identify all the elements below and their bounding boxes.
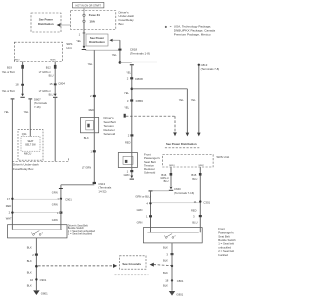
svg-text:(Terminals 1-8): (Terminals 1-8) — [130, 51, 150, 55]
faint C301 row — [151, 202, 201, 204]
svg-text:MWO: MWO — [169, 165, 175, 167]
svg-text:C901: C901 — [65, 197, 72, 201]
svg-text:BLK: BLK — [163, 259, 168, 263]
wire C lower LT GRN or BLU label — [39, 90, 54, 96]
dashed branch to SRS (horizontal) — [126, 115, 175, 117]
wire A terminal 2 node — [9, 210, 14, 214]
wire D (driver solenoid feed) — [88, 50, 95, 117]
svg-text:7-16): 7-16) — [34, 105, 41, 109]
connector C804 row: pin 18 on wire A — [15, 82, 24, 86]
svg-text:GRN: GRN — [137, 221, 143, 225]
svg-text:BLK: BLK — [163, 271, 168, 275]
SRS unit dashed box (upper left) — [14, 42, 72, 62]
svg-text:B12: B12 — [46, 65, 51, 69]
svg-text:GRN: GRN — [52, 202, 58, 206]
svg-text:YEL: YEL — [124, 91, 129, 95]
driver's under-dash fuse/relay box label (lower) — [13, 163, 39, 171]
ground G801 (driver) — [33, 290, 48, 295]
dashed branch start tick — [124, 114, 126, 118]
connector C901 ground pin 16 — [30, 278, 47, 282]
MICU inner seat belt sw box — [21, 137, 40, 152]
svg-text:YEL or BLU: YEL or BLU — [2, 71, 15, 74]
svg-text:Premium Package, Mexico: Premium Package, Mexico — [174, 33, 211, 37]
faint artifact line — [132, 61, 157, 63]
svg-text:Box: Box — [119, 22, 125, 26]
wire D terminal 2 — [90, 94, 96, 98]
svg-text:3: 3 — [193, 215, 195, 219]
svg-text:C301: C301 — [203, 201, 210, 205]
dashed line from see grounds to passenger side — [150, 263, 172, 267]
svg-text:G801: G801 — [41, 292, 48, 296]
svg-text:B15: B15 — [191, 173, 196, 177]
ground G801 (passenger) — [169, 291, 184, 296]
svg-text:GRN: GRN — [52, 190, 58, 194]
arrow + line from wire E into see power box 2 — [109, 39, 120, 42]
connector C801 pin 18 node — [165, 279, 184, 283]
see power distribution reference box 2 (center) — [86, 34, 108, 46]
svg-text:D808: D808 — [135, 77, 143, 81]
svg-text:BLU: BLU — [164, 180, 169, 183]
C807 label — [34, 97, 47, 109]
wire C continues into under-dash box — [54, 98, 56, 162]
svg-text:15: 15 — [49, 82, 53, 86]
terminal B15 — [191, 167, 201, 228]
driver's solenoid label — [104, 116, 116, 136]
terminal 3 on B15 — [193, 215, 202, 219]
svg-text:10A: 10A — [89, 19, 95, 23]
terminal 3 below passenger buckle — [166, 253, 173, 257]
svg-text:YEL: YEL — [4, 110, 9, 114]
svg-text:BLU: BLU — [49, 75, 54, 78]
B16 wire color label — [160, 177, 169, 183]
C807 lower ticks — [11, 98, 15, 99]
see grounds reference box — [115, 256, 149, 275]
svg-text:MWC: MWC — [50, 60, 56, 62]
wire F terminal 2 (lower) — [128, 134, 134, 138]
see power distribution reference box (top left, dashed) — [31, 13, 61, 32]
connector D856 pin 3 on wire F — [127, 99, 143, 103]
svg-text:(Terminals 7-8): (Terminals 7-8) — [201, 67, 220, 71]
wire F below solenoid — [131, 168, 133, 176]
svg-text:3: 3 — [166, 253, 168, 257]
terminal 2 below buckle — [32, 253, 38, 257]
svg-text:RED: RED — [125, 141, 131, 145]
connector C301 pin 4 node — [146, 201, 151, 205]
svg-text:YEL: YEL — [191, 98, 196, 102]
svg-text:BLK: BLK — [27, 283, 32, 287]
dashed line to see grounds (left) — [38, 264, 117, 268]
wire F top bar connector — [130, 64, 134, 65]
terminal 1 lower passenger wire — [146, 215, 152, 219]
svg-text:C901: C901 — [40, 278, 47, 282]
svg-text:Unit: Unit — [66, 46, 72, 50]
SRS unit 2 pins — [169, 165, 204, 167]
connector C901 node on lower driver wire, pin 4 — [57, 197, 72, 201]
arrow into see power distribution box 1 — [57, 23, 71, 27]
svg-text:2: 2 — [128, 134, 130, 138]
connector C913 on wire D — [93, 182, 112, 194]
svg-text:BLU: BLU — [192, 178, 197, 181]
svg-text:16: 16 — [30, 278, 34, 282]
svg-text:BLK: BLK — [27, 270, 32, 274]
svg-text:2 = Seat belt buckled: 2 = Seat belt buckled — [68, 232, 93, 236]
svg-text:Distribution: Distribution — [38, 22, 54, 26]
wire F end connector arrow+bar — [130, 176, 134, 180]
svg-text:G801: G801 — [176, 292, 183, 296]
svg-text:BLK: BLK — [84, 136, 89, 140]
svg-text:Fuse/Relay Box: Fuse/Relay Box — [13, 167, 34, 171]
under-dash box bottom dashed edge — [12, 158, 69, 161]
ground splice node — [35, 265, 38, 268]
passenger buckle switch contacts — [164, 234, 177, 239]
svg-text:1: 1 — [146, 215, 148, 219]
connector C807: wire C arrow+bar — [53, 94, 57, 98]
svg-text:1: 1 — [90, 149, 92, 153]
svg-text:2: 2 — [9, 210, 11, 214]
dashed branch vertical + arrow — [173, 116, 177, 136]
svg-text:1: 1 — [79, 33, 81, 37]
svg-text:B19: B19 — [7, 65, 12, 69]
svg-text:18: 18 — [15, 82, 19, 86]
terminal B16 — [161, 167, 172, 186]
svg-text:LT GRN: LT GRN — [82, 166, 91, 170]
svg-text:C801: C801 — [177, 279, 184, 283]
junction node on wire F — [131, 88, 134, 91]
connector arrow+bar at C818 (fuse wire end) — [82, 46, 86, 50]
svg-text:See Power: See Power — [39, 18, 54, 22]
wire from hot bar to fuse — [83, 8, 85, 14]
svg-text:1: 1 — [127, 170, 129, 174]
driver's seat belt tension reducer solenoid box — [81, 118, 99, 133]
buckle switch contacts — [31, 231, 43, 236]
svg-text:2: 2 — [42, 233, 44, 235]
svg-text:buckled: buckled — [218, 253, 228, 257]
svg-text:YEL: YEL — [126, 70, 131, 74]
faint row at buckle terminals — [12, 212, 61, 214]
MICU outer dashed box — [18, 130, 43, 161]
lower passenger wire (to buckle switch) — [149, 190, 153, 227]
lower driver wire (to buckle switch) — [59, 185, 63, 225]
svg-text:SRS Unit: SRS Unit — [216, 155, 229, 159]
svg-text:YEL: YEL — [24, 110, 29, 114]
svg-text:GRN or BLU: GRN or BLU — [135, 194, 150, 198]
thin line from C660 to lower passenger wire — [151, 190, 169, 192]
svg-text:Solenoid: Solenoid — [104, 132, 116, 136]
fuse box (driver's under-dash fuse/relay box, dashed) — [71, 11, 116, 30]
svg-text:D856: D856 — [136, 99, 144, 103]
SRS unit pins — [14, 60, 56, 62]
front passenger's seat belt tension reducer solenoid box — [118, 153, 137, 168]
svg-text:YEL or BLU: YEL or BLU — [2, 90, 15, 93]
SRS unit dashed box (lower right) — [163, 155, 230, 168]
svg-text:GRN: GRN — [137, 208, 143, 212]
svg-text:HOT IN ON OR START: HOT IN ON OR START — [76, 4, 102, 7]
see power distribution label above SRS unit — [165, 142, 199, 148]
fuse 31 value label — [89, 13, 101, 23]
wire B to MICU — [24, 99, 31, 136]
svg-text:BLK: BLK — [27, 246, 32, 250]
passenger buckle output wire BLK — [163, 243, 172, 291]
footnote (top right) — [165, 25, 216, 37]
terminal 1 on lower driver wire — [57, 211, 62, 215]
svg-text:Solenoid: Solenoid — [144, 171, 156, 175]
svg-text:2: 2 — [127, 77, 129, 81]
svg-text:14-32): 14-32) — [98, 190, 106, 194]
faint C901 connector row line — [12, 198, 61, 200]
jog from wire D to lower driver wire — [61, 184, 94, 186]
C813 connector node (top right) — [198, 63, 220, 71]
wire C upper LT GRN or BLU label — [39, 71, 54, 77]
svg-text:4: 4 — [146, 201, 148, 205]
svg-text:GRN: GRN — [124, 173, 130, 177]
svg-text:YEL: YEL — [76, 39, 81, 43]
wire E from see-power line down to junction — [112, 40, 122, 62]
terminal B19 — [7, 62, 24, 95]
passenger buckle switch label — [218, 227, 236, 257]
svg-text:=: = — [170, 25, 172, 29]
svg-text:YEL: YEL — [179, 98, 184, 102]
svg-text:(Terminals 7-16): (Terminals 7-16) — [174, 191, 194, 195]
C660 connector label — [174, 187, 194, 195]
driver buckle output wire BLK — [27, 238, 37, 290]
driver's seat belt buckle switch box — [8, 225, 68, 238]
svg-text:BELT SW: BELT SW — [25, 143, 36, 146]
connector D808 pin 2 on wire F — [127, 77, 143, 81]
svg-text:C804: C804 — [58, 82, 65, 86]
svg-text:MWC: MWC — [199, 165, 205, 167]
junction node at E bottom — [119, 61, 122, 64]
svg-text:18: 18 — [165, 279, 169, 283]
svg-text:RED: RED — [89, 108, 95, 112]
driver's under-dash fuse/relay box label — [119, 10, 135, 25]
svg-text:See Grounds: See Grounds — [122, 262, 141, 266]
svg-text:MWO: MWO — [14, 60, 20, 62]
terminal B12 — [46, 62, 57, 95]
passenger solenoid label — [144, 153, 160, 175]
svg-text:3: 3 — [127, 99, 129, 103]
svg-text:Fuse 31: Fuse 31 — [89, 13, 101, 17]
fuse F31 symbol — [83, 14, 85, 22]
svg-text:BLK: BLK — [163, 245, 168, 249]
svg-text:BLK: BLK — [163, 284, 168, 288]
connector C807: wire A arrow+bar — [20, 94, 24, 98]
svg-text:YEL: YEL — [88, 62, 93, 66]
svg-text:RED: RED — [191, 208, 197, 212]
branch from F junction to SRS feed — [132, 88, 188, 90]
wire D terminal 1 — [90, 149, 95, 153]
connector C804 row: pin 15 on wire C — [49, 82, 65, 86]
svg-text:17: 17 — [7, 197, 11, 201]
svg-text:MICU: MICU — [24, 151, 31, 155]
connector C301 pin 11 node — [194, 200, 211, 205]
thin bus line below C818 — [85, 49, 120, 51]
front passenger's seat belt buckle switch box — [143, 228, 202, 243]
branch from junction to wire F — [120, 61, 132, 63]
wire F terminal 1 — [127, 170, 134, 174]
svg-text:✱: ✱ — [165, 25, 168, 29]
svg-text:Q11: Q11 — [22, 132, 27, 136]
svg-text:2: 2 — [32, 253, 34, 257]
passenger ground splice node — [171, 265, 173, 267]
hot bar label box — [73, 2, 104, 8]
svg-text:WHT: WHT — [6, 217, 12, 221]
driver's buckle switch label — [68, 223, 96, 235]
wire A pin 17 node — [7, 197, 14, 201]
svg-text:GRN: GRN — [52, 218, 58, 222]
wire D below solenoid BLK — [84, 133, 95, 184]
svg-text:YEL: YEL — [112, 53, 117, 57]
svg-text:BLU: BLU — [192, 221, 197, 225]
B16 end connector arrow+bar (C660) — [169, 187, 173, 191]
svg-text:2: 2 — [174, 236, 176, 238]
svg-text:See Power Distribution: See Power Distribution — [166, 142, 197, 146]
svg-text:BLU: BLU — [49, 94, 54, 97]
wire H from C813 down to SRS arrow — [191, 66, 201, 136]
svg-text:Distribution: Distribution — [89, 40, 105, 44]
svg-text:BLK: BLK — [27, 259, 32, 263]
svg-text:11: 11 — [194, 200, 197, 204]
wire fuse output YEL — [76, 22, 84, 46]
svg-text:RED: RED — [6, 204, 12, 208]
wire A lower run — [4, 99, 12, 225]
svg-text:2: 2 — [90, 94, 92, 98]
C818 connector label — [130, 48, 150, 56]
svg-text:YEL: YEL — [124, 106, 129, 110]
wire F (passenger solenoid feed) — [126, 65, 132, 152]
fuse output pin 1 — [79, 33, 86, 37]
horizontal branch y88.8 drop to SRS arrow (wire G) — [179, 89, 189, 137]
